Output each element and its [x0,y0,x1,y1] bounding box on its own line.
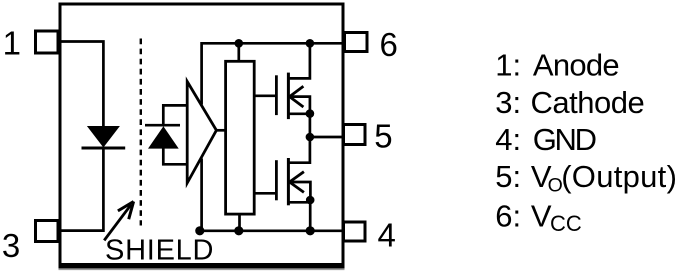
photodiode PD cathode bar [145,124,180,127]
photodiode PD triangle [148,126,179,148]
wire ground rail to pin 4 [200,229,344,232]
mosfet Q1 channel bar [287,73,290,120]
mosfet Q1 body arrow [290,86,304,107]
mosfet Q1 gate bar [275,75,278,115]
svg-text:1:Anode: 1:Anode [495,48,619,83]
amplifier U1 triangle [187,82,216,184]
pin 3 terminal box [36,221,59,242]
node Q1 source junction [306,109,315,118]
driver block U2 [226,61,255,214]
svg-text:4:GND: 4:GND [495,122,597,157]
wire LED cathode to pin3 [59,148,104,231]
wire Q1 source to output node [309,114,312,137]
LED D1 triangle [87,126,120,148]
node ground rail right junction [306,226,315,235]
node ground rail center junction [234,226,243,235]
wire amplifier output to driver block [216,129,226,132]
LED D1 cathode bar [82,147,126,150]
node junction block top [235,39,244,48]
wire Vcc rail top [202,43,344,231]
svg-text:4: 4 [378,217,396,254]
pin legend text [495,48,677,237]
mosfet Q1 drain [288,43,310,78]
svg-text:1: 1 [3,25,21,62]
photodiode PD bracket top [163,105,187,125]
mosfet Q2 gate stub [254,192,276,195]
wire driver block bottom to ground rail [238,214,241,231]
node ground rail left junction [195,226,204,235]
mosfet Q1 source [288,112,310,115]
svg-text:6: 6 [380,26,398,63]
wire pin1 to LED anode [59,42,104,127]
mosfet Q2 body tie [290,182,311,200]
pin 6 terminal box [345,33,368,52]
svg-text:6:VCC: 6:VCC [495,199,582,237]
mosfet Q2 channel bar [287,158,290,205]
svg-text:3:Cathode: 3:Cathode [495,85,645,120]
node junction mosfet rail top [306,39,315,48]
wire output node to pin 5 [310,136,344,139]
shield dashed line [140,39,142,226]
mosfet Q2 gate bar [275,160,278,200]
node output junction [306,133,315,142]
svg-text:5: 5 [374,118,392,155]
mosfet Q2 source [288,201,310,204]
mosfet Q2 body arrow [290,172,304,193]
svg-text:5:VO(Output): 5:VO(Output) [495,159,677,197]
svg-text:3: 3 [2,227,20,264]
mosfet Q1 body tie [290,97,310,114]
pin 1 terminal box [36,31,59,53]
node Q2 source junction [306,196,315,205]
shield pointer arrow [104,202,133,241]
svg-text:SHIELD: SHIELD [105,235,214,267]
wire Q2 source to ground rail [309,200,312,231]
wire rail to driver block top [237,43,240,61]
pin 4 terminal box [344,222,366,241]
pin 5 terminal box [344,125,366,145]
photodiode PD bracket bottom [163,148,187,164]
mosfet Q1 gate stub [254,94,276,97]
package outline [59,4,345,269]
mosfet Q2 drain [288,137,310,163]
